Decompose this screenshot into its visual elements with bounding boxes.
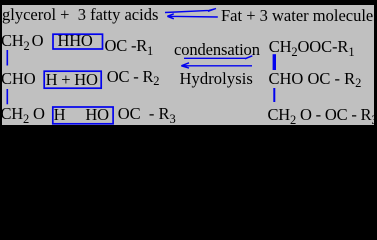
right column row C: CH2O - OC - R3 <box>268 106 377 125</box>
row B boxed: H + HO <box>46 71 98 88</box>
label: Hydrolysis <box>180 70 253 87</box>
bond: fat C2-C3 <box>273 88 275 102</box>
row B left: CHO <box>1 70 36 87</box>
text: Fat + 3 water molecules <box>221 7 377 24</box>
box A around HHO <box>53 34 103 49</box>
text: glycerol + 3 fatty acids <box>2 6 158 23</box>
equilibrium arrow bottom (left) <box>167 14 218 19</box>
row C boxed: H <box>54 106 66 123</box>
box B around H + HO <box>44 71 101 88</box>
hydrolysis arrow (left) <box>181 63 252 68</box>
row C boxed: HO <box>85 106 108 123</box>
row A boxed: HHO <box>58 32 93 49</box>
box C around H HO <box>53 107 113 124</box>
right column row A: CH2OOC-R1 <box>269 38 355 57</box>
label: condensation <box>174 41 260 58</box>
row C: OC - R3 <box>118 105 176 124</box>
bond: glycerol C2-C3 <box>6 89 8 104</box>
bond: fat C1-C2 (thick) <box>273 54 276 70</box>
row B: OC - R2 <box>107 68 160 87</box>
blue graphics overlay <box>0 0 377 148</box>
row A left: CH2O <box>1 32 43 51</box>
right column row B: CHO OC - R2 <box>269 70 362 89</box>
row A: OC -R1 <box>105 37 154 56</box>
grey panel background <box>2 5 375 125</box>
row C left: CH2O <box>1 105 45 124</box>
bond: glycerol C1-C2 <box>6 50 8 66</box>
condensation arrow (right) <box>184 56 252 59</box>
equilibrium arrow top (right) <box>165 9 216 13</box>
